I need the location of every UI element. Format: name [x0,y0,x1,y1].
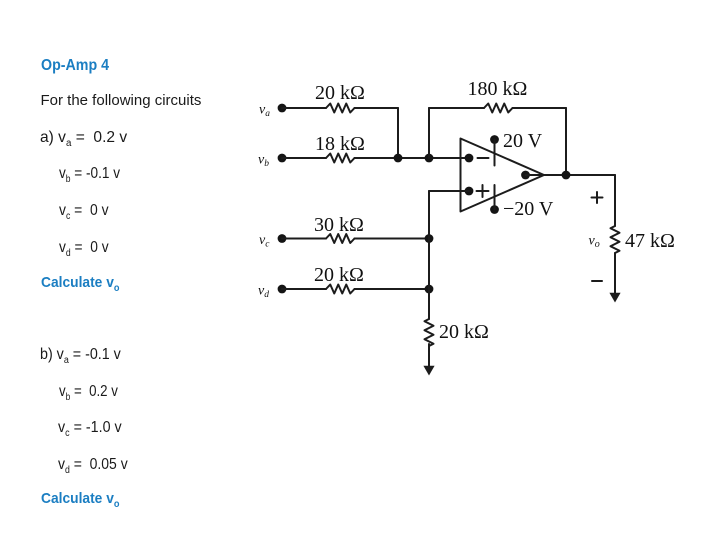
svg-text:20 kΩ: 20 kΩ [315,82,365,104]
label va [259,103,270,120]
wire R20k to corner [355,107,399,109]
op-amp noninverting input dot [465,187,474,196]
junction node B (feedback tap) [425,154,434,163]
wire vd to R 20k [282,288,326,290]
resistor 180k feedback [484,104,513,113]
value 20 V supply [503,130,543,152]
resistor 20k to ground [425,319,434,346]
negative supply pin wire [494,185,496,210]
svg-text:vd: vd [258,284,269,301]
wire load vertical top [614,175,616,226]
value -20 V supply [503,198,554,220]
resistor 20k (vd) [326,285,355,294]
prompt line [41,93,202,108]
op-amp U1 triangle [461,139,545,212]
value 20 kOhm (ground leg) [439,321,489,343]
resistor 47k load [611,226,620,253]
wire Rvd to junction [355,288,430,290]
op-amp output pin dot [521,171,530,180]
node va terminal [278,104,287,113]
negative supply pin dot [490,205,499,214]
value 47 kOhm [625,230,675,252]
plus polarity vo [592,192,603,203]
wire ground leg bottom [428,344,430,368]
svg-text:20 kΩ: 20 kΩ [314,264,364,286]
junction node A (va/vb) [394,154,403,163]
wire output to load corner [544,174,615,176]
node vd terminal [278,285,287,294]
wire vb to R 18k [282,157,326,159]
junction node C [425,234,434,243]
label vb [258,153,269,170]
calculate vo (b) [41,491,120,506]
junction node output/feedback [562,171,571,180]
wire feedback top right [513,107,567,109]
svg-text:vc: vc [259,233,270,250]
resistor 18k (vb) [326,154,355,163]
minus polarity vo [592,280,602,282]
svg-text:20 kΩ: 20 kΩ [439,321,489,343]
svg-text:30 kΩ: 30 kΩ [314,214,364,236]
svg-text:va: va [259,103,270,120]
calculate vo (a) [41,275,120,290]
wire va to R 20k [282,107,326,109]
wire output pin to apex [526,174,545,176]
op-amp minus sign [478,157,489,159]
value 30 kOhm (vc) [314,214,364,236]
positive supply pin dot [490,135,499,144]
wire feedback top left [429,107,484,109]
op-amp plus sign [477,185,489,197]
value 20 kOhm (va) [315,82,365,104]
resistor 20k (va) [326,104,355,113]
a) vd value [59,240,109,256]
junction node D [425,285,434,294]
label vc [259,233,270,250]
svg-text:18 kΩ: 18 kΩ [315,133,365,155]
ground arrow (divider) [423,366,434,376]
b) vd value [58,457,128,473]
op-amp inverting input dot [465,154,474,163]
title Op-Amp 4 [41,58,109,74]
wire feedback right vertical [565,108,567,175]
wire R18k to inverting input [355,157,470,159]
a) vc value [59,203,109,219]
wire feedback left vertical [428,108,430,158]
resistor 30k (vc) [326,234,355,243]
label vo [589,234,600,251]
a) vb value [59,166,120,182]
wire R30k to junction [355,238,430,240]
svg-text:vb: vb [258,153,269,170]
svg-text:−20 V: −20 V [503,198,554,220]
svg-text:180 kΩ: 180 kΩ [468,78,528,100]
svg-text:vo: vo [589,234,600,251]
node vc terminal [278,234,287,243]
wire vc to R 30k [282,238,326,240]
value 20 kOhm (vd) [314,264,364,286]
a) va value [40,130,127,146]
wire load vertical bottom [614,253,616,295]
wire junction column vertical [428,191,430,319]
b) va value [40,347,121,363]
ground arrow (load) [609,293,620,303]
value 18 kOhm (vb) [315,133,365,155]
label vd [258,284,269,301]
wire noninverting to junction column [429,190,469,192]
positive supply pin wire [494,140,496,166]
b) vb value [59,384,118,400]
b) vc value [58,420,122,436]
wire corner down to vb node [397,108,399,158]
svg-text:47 kΩ: 47 kΩ [625,230,675,252]
value 180 kOhm [468,78,528,100]
svg-text:20 V: 20 V [503,130,543,152]
node vb terminal [278,154,287,163]
